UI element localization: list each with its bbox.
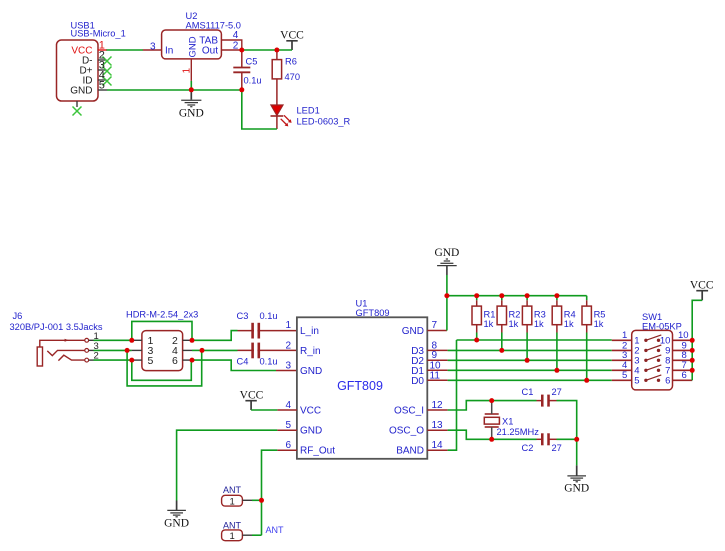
svg-text:27: 27 <box>552 443 562 453</box>
svg-text:GND: GND <box>179 108 204 120</box>
svg-text:In: In <box>165 46 173 57</box>
svg-text:27: 27 <box>552 387 562 397</box>
svg-text:3: 3 <box>150 41 156 52</box>
svg-text:1: 1 <box>182 68 193 74</box>
svg-text:X1: X1 <box>502 416 513 426</box>
svg-text:GND: GND <box>188 36 199 57</box>
svg-text:5: 5 <box>99 80 105 92</box>
svg-text:2: 2 <box>233 40 239 51</box>
svg-text:GND: GND <box>300 366 322 377</box>
svg-text:12: 12 <box>432 400 444 411</box>
svg-text:USB-Micro_1: USB-Micro_1 <box>71 29 126 39</box>
svg-text:0.1u: 0.1u <box>260 357 278 367</box>
svg-text:6: 6 <box>172 355 178 367</box>
svg-text:C4: C4 <box>237 357 249 367</box>
svg-text:L_in: L_in <box>300 326 319 337</box>
svg-text:U1: U1 <box>356 298 368 308</box>
svg-text:6: 6 <box>682 370 687 381</box>
svg-text:2: 2 <box>285 340 291 351</box>
svg-text:GND: GND <box>300 426 322 437</box>
svg-text:GFT809: GFT809 <box>337 379 383 393</box>
svg-text:1k: 1k <box>534 319 544 329</box>
svg-text:VCC: VCC <box>300 405 321 416</box>
svg-text:1k: 1k <box>564 319 574 329</box>
svg-text:1k: 1k <box>484 319 494 329</box>
svg-text:RF_Out: RF_Out <box>300 446 335 457</box>
svg-text:ANT: ANT <box>266 525 285 535</box>
svg-text:ANT: ANT <box>223 485 242 495</box>
svg-text:1: 1 <box>285 320 291 331</box>
svg-text:LED-0603_R: LED-0603_R <box>297 116 351 126</box>
svg-text:5: 5 <box>634 375 639 386</box>
svg-text:VCC: VCC <box>280 29 304 41</box>
svg-text:R_in: R_in <box>300 346 321 357</box>
svg-text:1k: 1k <box>509 319 519 329</box>
svg-text:11: 11 <box>430 370 441 381</box>
svg-text:GFT809: GFT809 <box>356 308 390 318</box>
svg-text:GND: GND <box>164 518 189 530</box>
svg-text:14: 14 <box>432 440 444 451</box>
svg-text:7: 7 <box>432 320 438 331</box>
svg-text:320B/PJ-001 3.5Jacks: 320B/PJ-001 3.5Jacks <box>10 322 103 332</box>
svg-text:LED1: LED1 <box>297 106 320 116</box>
svg-text:GND: GND <box>402 326 424 337</box>
svg-text:C1: C1 <box>522 387 534 397</box>
svg-text:R5: R5 <box>594 310 606 320</box>
svg-text:R1: R1 <box>484 310 496 320</box>
svg-text:1: 1 <box>230 496 235 507</box>
svg-text:4: 4 <box>285 400 291 411</box>
svg-text:HDR-M-2.54_2x3: HDR-M-2.54_2x3 <box>126 310 198 320</box>
svg-text:R6: R6 <box>285 57 297 67</box>
svg-text:U2: U2 <box>186 11 198 21</box>
svg-text:6: 6 <box>285 440 291 451</box>
svg-text:C2: C2 <box>522 443 534 453</box>
svg-text:5: 5 <box>285 420 291 431</box>
svg-text:J6: J6 <box>13 311 23 321</box>
svg-text:3: 3 <box>285 360 291 371</box>
svg-text:Out: Out <box>202 46 218 57</box>
svg-text:D0: D0 <box>411 376 424 387</box>
svg-text:ANT: ANT <box>223 521 242 531</box>
svg-text:GND: GND <box>434 247 459 259</box>
svg-text:OSC_I: OSC_I <box>394 405 424 416</box>
svg-text:GND: GND <box>564 483 589 495</box>
svg-text:C5: C5 <box>246 56 258 66</box>
svg-text:VCC: VCC <box>240 389 264 401</box>
svg-text:5: 5 <box>148 355 154 367</box>
svg-text:1k: 1k <box>594 319 604 329</box>
svg-text:470: 470 <box>285 72 301 82</box>
svg-text:13: 13 <box>432 420 444 431</box>
svg-text:1: 1 <box>230 531 235 542</box>
svg-text:BAND: BAND <box>396 446 424 457</box>
svg-text:6: 6 <box>665 375 670 386</box>
svg-text:GND: GND <box>70 85 92 96</box>
svg-text:0.1u: 0.1u <box>260 311 278 321</box>
svg-text:R4: R4 <box>564 310 576 320</box>
svg-text:0.1u: 0.1u <box>244 76 262 86</box>
svg-text:C3: C3 <box>237 311 249 321</box>
svg-text:VCC: VCC <box>690 279 714 291</box>
svg-text:OSC_O: OSC_O <box>389 426 424 437</box>
svg-text:R3: R3 <box>534 310 546 320</box>
svg-text:5: 5 <box>622 370 627 381</box>
svg-text:R2: R2 <box>509 310 521 320</box>
svg-text:AMS1117-5.0: AMS1117-5.0 <box>186 21 241 31</box>
svg-text:21.25MHz: 21.25MHz <box>497 427 540 437</box>
